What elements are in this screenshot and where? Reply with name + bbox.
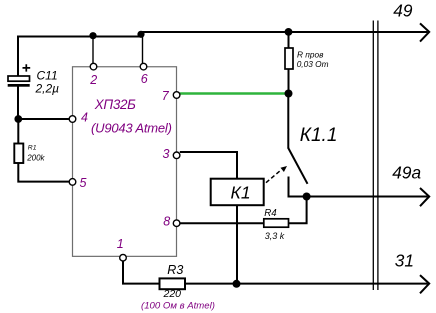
- svg-text:6: 6: [141, 72, 148, 86]
- svg-text:К1: К1: [231, 183, 251, 203]
- svg-text:R пров: R пров: [297, 49, 324, 59]
- svg-text:8: 8: [163, 214, 170, 228]
- wire top right from node above pin 6 to 49 arrow: [140, 31, 428, 33]
- svg-text:R3: R3: [167, 263, 183, 277]
- pin 1: [120, 254, 127, 261]
- wire pin 8 to R4: [180, 222, 264, 224]
- resistor R3: [160, 278, 186, 289]
- wire switch fixed contact to node E: [289, 177, 307, 197]
- bus line 1: [372, 21, 374, 291]
- svg-text:1: 1: [117, 237, 124, 251]
- pin 3: [173, 152, 180, 159]
- wire K1 bottom to node D: [236, 206, 238, 284]
- svg-text:200k: 200k: [26, 153, 45, 162]
- svg-text:ХП32Б: ХП32Б: [94, 97, 136, 112]
- arrow head net 49a: [420, 188, 429, 206]
- capacitor C11 top plate: [8, 76, 30, 81]
- dashed actuation arrow from K1 to K1.1: [266, 170, 282, 183]
- pin 7: [173, 92, 180, 99]
- svg-text:(100 Ом в Atmel): (100 Ом в Atmel): [141, 301, 215, 312]
- node E junction switch output: [303, 193, 311, 201]
- wire switch common terminal down: [287, 94, 289, 149]
- wire R1 bottom to pin 5: [18, 163, 69, 182]
- svg-text:2,2µ: 2,2µ: [35, 81, 60, 95]
- wire top-left from C11 up and right to node above pin 2: [18, 37, 142, 77]
- pin 2: [90, 63, 97, 70]
- wire R probe top stub: [288, 32, 290, 48]
- svg-text:К1.1: К1.1: [300, 125, 338, 146]
- wire pin 3 to K1 top: [180, 152, 237, 179]
- wire stub pin 6: [142, 34, 144, 63]
- svg-text:2: 2: [89, 73, 97, 87]
- svg-text:3,3 k: 3,3 k: [265, 231, 285, 241]
- arrow head net 49: [420, 23, 429, 41]
- wire node C to pin 4: [18, 118, 69, 120]
- resistor R1: [14, 144, 23, 164]
- svg-text:(U9043 Atmel): (U9043 Atmel): [91, 120, 172, 135]
- wire R4 right up to node E: [289, 197, 307, 224]
- pin 5: [69, 179, 76, 186]
- wire node C down to R1: [17, 119, 19, 144]
- bus line 2: [377, 21, 379, 291]
- svg-text:3: 3: [163, 147, 170, 161]
- relay coil K1: [211, 179, 264, 206]
- svg-text:49: 49: [393, 1, 413, 21]
- pin 6: [140, 63, 147, 70]
- wire C11 bottom to node C: [17, 87, 19, 120]
- node G junction on green net: [285, 90, 293, 98]
- svg-text:49a: 49a: [392, 163, 421, 183]
- wire R probe bottom to green node: [288, 69, 290, 94]
- wire pin 1 down and right to R3: [123, 261, 160, 284]
- svg-text:220: 220: [163, 288, 182, 300]
- arrow head net 31: [420, 275, 429, 293]
- svg-text:0,03 Om: 0,03 Om: [297, 59, 329, 69]
- svg-text:R4: R4: [264, 208, 277, 219]
- svg-text:4: 4: [81, 111, 88, 125]
- resistor R4: [264, 219, 289, 227]
- node F junction top at R probe: [285, 28, 293, 36]
- node C junction left (C11/R1/pin4): [14, 115, 22, 123]
- capacitor C11 polarity plus: [23, 64, 31, 71]
- pin 4: [69, 116, 76, 123]
- svg-text:R1: R1: [28, 145, 37, 152]
- wire stub pin 2: [92, 36, 94, 63]
- capacitor C11 bottom plate: [8, 84, 30, 87]
- svg-text:7: 7: [162, 89, 170, 103]
- resistor R probe (R пров): [285, 48, 293, 69]
- node B junction above pin 6: [137, 31, 144, 38]
- node A junction above pin 2: [89, 32, 96, 39]
- wire node E to 49a arrow: [307, 196, 428, 198]
- switch K1.1 blade: [288, 148, 308, 184]
- wire green net from pin 7 to node G: [180, 92, 289, 95]
- wire R3 to 31 arrow: [185, 283, 428, 285]
- svg-text:5: 5: [80, 176, 87, 190]
- node D bottom junction: [233, 280, 241, 288]
- svg-text:31: 31: [395, 251, 414, 271]
- pin 8: [173, 220, 180, 227]
- IC box U1 ХП32Б: [73, 67, 177, 257]
